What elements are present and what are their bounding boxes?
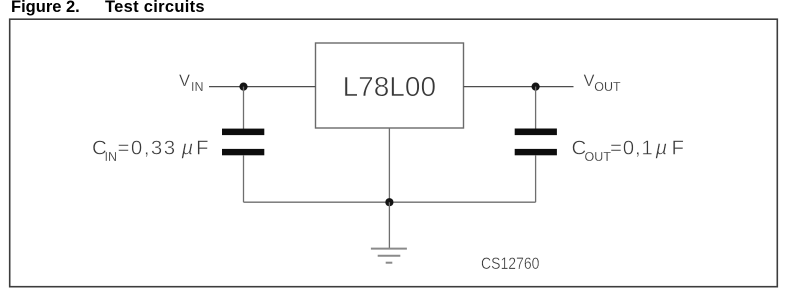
svg-text:CS12760: CS12760 xyxy=(481,255,539,273)
value label CIN = 0,33 uF xyxy=(92,136,209,164)
svg-text:OUT: OUT xyxy=(585,150,612,164)
svg-text:µ: µ xyxy=(655,136,668,159)
wire U1 GND pin down xyxy=(388,128,390,202)
svg-text:V: V xyxy=(179,72,190,90)
svg-text:=0,33: =0,33 xyxy=(118,136,177,159)
svg-text:L78L00: L78L00 xyxy=(343,71,436,102)
junction input node xyxy=(239,83,247,91)
node VIN xyxy=(179,72,204,94)
svg-text:V: V xyxy=(584,72,595,90)
junction ground rail xyxy=(385,198,393,206)
wire VIN to U1 input xyxy=(209,86,316,88)
wire junction down to CIN xyxy=(243,87,245,129)
svg-text:IN: IN xyxy=(191,80,204,94)
junction output node xyxy=(532,83,540,91)
svg-text:µ: µ xyxy=(181,136,194,159)
wire junction down to COUT xyxy=(535,87,537,129)
wire U1 output to VOUT xyxy=(464,86,574,88)
svg-text:OUT: OUT xyxy=(594,80,621,94)
figure title xyxy=(11,0,80,17)
wire ground rail xyxy=(244,201,536,203)
capacitor CIN xyxy=(222,129,264,156)
regulator U1 L78L00 xyxy=(316,43,464,128)
svg-text:IN: IN xyxy=(105,150,118,164)
svg-text:=0,1: =0,1 xyxy=(610,136,653,159)
ground xyxy=(371,249,407,263)
svg-text:F: F xyxy=(672,136,685,159)
capacitor COUT xyxy=(515,129,557,156)
svg-text:F: F xyxy=(196,136,209,159)
value label COUT = 0,1 uF xyxy=(572,136,685,164)
wire CIN to ground rail xyxy=(243,155,245,202)
wire junction to ground symbol xyxy=(388,202,390,248)
node VOUT xyxy=(584,72,622,94)
wire COUT to ground rail xyxy=(535,155,537,202)
